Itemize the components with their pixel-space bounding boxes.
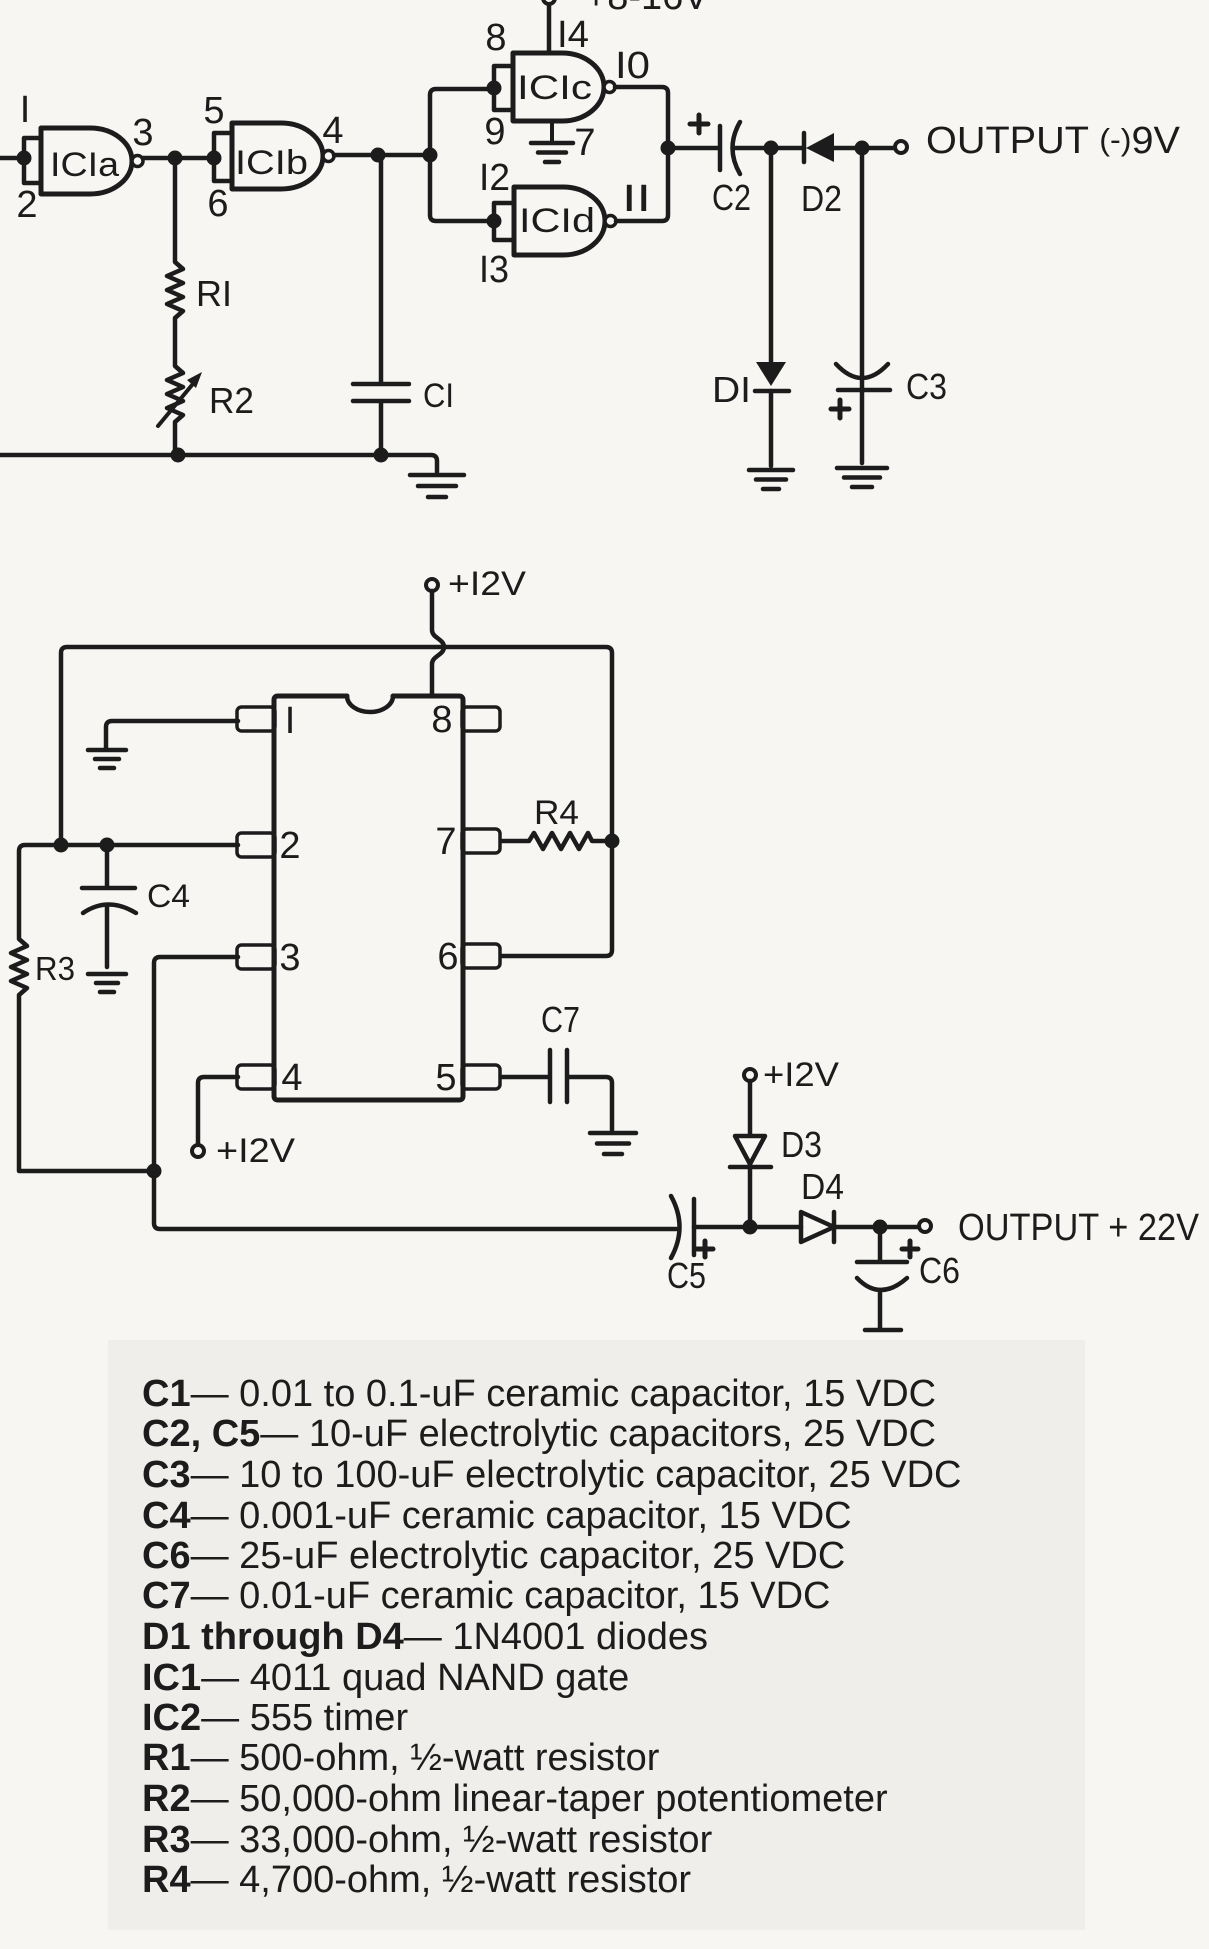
svg-text:IC1— 4011 quad NAND gate: IC1— 4011 quad NAND gate — [142, 1657, 629, 1699]
svg-text:ICIb: ICIb — [235, 144, 308, 182]
svg-text:DI: DI — [712, 369, 751, 410]
svg-text:8: 8 — [485, 17, 506, 59]
svg-text:D3: D3 — [781, 1124, 822, 1165]
svg-text:C4: C4 — [147, 878, 190, 914]
svg-text:I0: I0 — [615, 45, 650, 87]
svg-text:2: 2 — [279, 825, 300, 867]
svg-text:4: 4 — [322, 110, 343, 152]
svg-text:C7: C7 — [541, 999, 580, 1040]
svg-text:ICIc: ICIc — [517, 69, 592, 107]
svg-text:I: I — [285, 700, 296, 742]
svg-text:C4— 0.001-uF ceramic capacitor: C4— 0.001-uF ceramic capacitor, 15 VDC — [142, 1495, 852, 1537]
svg-text:D2: D2 — [801, 178, 842, 219]
svg-text:I: I — [20, 89, 31, 131]
svg-text:R3: R3 — [35, 950, 75, 987]
svg-text:+I2V: +I2V — [216, 1132, 295, 1170]
svg-text:OUTPUT + 22V: OUTPUT + 22V — [958, 1207, 1200, 1249]
svg-text:9: 9 — [484, 111, 505, 153]
svg-text:IC2— 555 timer: IC2— 555 timer — [142, 1697, 408, 1739]
svg-text:C7— 0.01-uF ceramic capacitor,: C7— 0.01-uF ceramic capacitor, 15 VDC — [142, 1575, 831, 1617]
svg-text:D4: D4 — [801, 1166, 844, 1207]
svg-text:R1— 500-ohm, ½-watt resistor: R1— 500-ohm, ½-watt resistor — [142, 1737, 660, 1779]
svg-text:7: 7 — [435, 821, 456, 863]
svg-text:R2: R2 — [209, 380, 254, 421]
svg-text:+I2V: +I2V — [448, 565, 526, 603]
svg-text:8: 8 — [431, 699, 452, 741]
svg-text:C5: C5 — [667, 1255, 706, 1296]
svg-text:I2: I2 — [479, 157, 510, 199]
svg-text:I4: I4 — [557, 14, 589, 56]
svg-text:ICId: ICId — [519, 202, 595, 240]
svg-text:2: 2 — [16, 184, 37, 226]
svg-text:7: 7 — [574, 122, 595, 164]
svg-text:4: 4 — [281, 1057, 302, 1099]
svg-text:6: 6 — [437, 936, 458, 978]
svg-text:3: 3 — [132, 112, 153, 154]
svg-text:5: 5 — [203, 90, 224, 132]
svg-text:C3: C3 — [906, 366, 947, 407]
svg-text:R4— 4,700-ohm, ½-watt resistor: R4— 4,700-ohm, ½-watt resistor — [142, 1859, 691, 1901]
svg-text:3: 3 — [279, 937, 300, 979]
svg-text:CI: CI — [423, 377, 454, 415]
svg-text:C2: C2 — [712, 177, 751, 218]
svg-text:OUTPUT (-)9V: OUTPUT (-)9V — [926, 120, 1181, 162]
svg-text:D1 through D4— 1N4001 diodes: D1 through D4— 1N4001 diodes — [142, 1616, 708, 1658]
svg-text:R4: R4 — [534, 794, 579, 832]
svg-text:5: 5 — [435, 1057, 456, 1099]
svg-text:+I2V: +I2V — [763, 1056, 839, 1094]
svg-text:+8-16V: +8-16V — [585, 0, 709, 18]
svg-text:I3: I3 — [479, 249, 509, 291]
svg-text:R3— 33,000-ohm, ½-watt resisto: R3— 33,000-ohm, ½-watt resistor — [142, 1819, 713, 1861]
svg-text:C3— 10 to 100-uF electrolytic: C3— 10 to 100-uF electrolytic capacitor,… — [142, 1454, 962, 1496]
svg-text:R2— 50,000-ohm linear-taper po: R2— 50,000-ohm linear-taper potentiomete… — [142, 1778, 888, 1820]
svg-text:C6— 25-uF electrolytic capacit: C6— 25-uF electrolytic capacitor, 25 VDC — [142, 1535, 845, 1577]
svg-text:C1— 0.01 to 0.1-uF ceramic cap: C1— 0.01 to 0.1-uF ceramic capacitor, 15… — [142, 1373, 936, 1415]
svg-text:ICIa: ICIa — [50, 146, 119, 184]
svg-text:C2, C5— 10-uF electrolytic cap: C2, C5— 10-uF electrolytic capacitors, 2… — [142, 1413, 936, 1455]
svg-text:II: II — [622, 178, 651, 220]
svg-text:6: 6 — [207, 183, 228, 225]
svg-text:RI: RI — [196, 273, 232, 314]
svg-text:C6: C6 — [919, 1250, 960, 1291]
